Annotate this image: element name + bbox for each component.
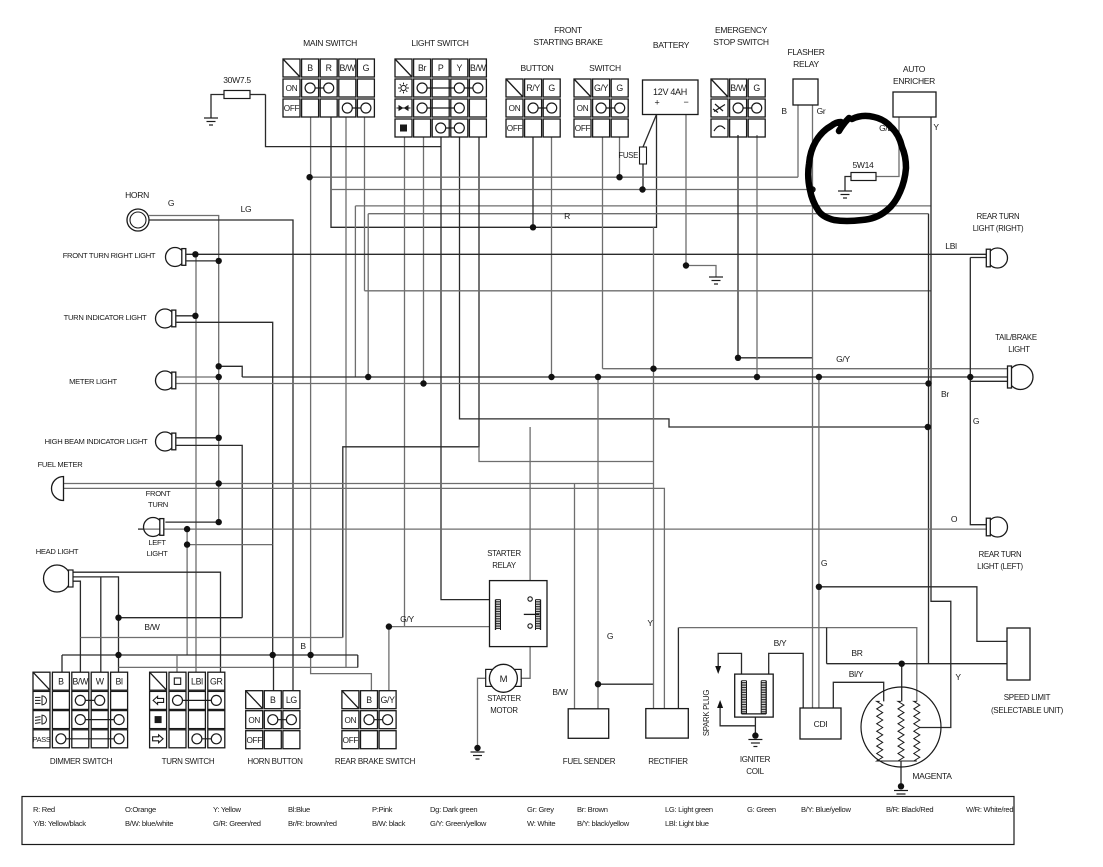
svg-text:BR: BR	[851, 648, 862, 658]
svg-text:G: G	[363, 63, 370, 73]
svg-text:OFF: OFF	[284, 104, 300, 113]
svg-text:PASS: PASS	[33, 735, 51, 744]
svg-text:(SELECTABLE UNIT): (SELECTABLE UNIT)	[991, 706, 1064, 715]
svg-text:Br: Brown: Br: Brown	[577, 805, 608, 814]
svg-text:LBl: Light blue: LBl: Light blue	[665, 819, 709, 828]
svg-text:Dg: Dark green: Dg: Dark green	[430, 805, 477, 814]
svg-text:B: B	[307, 63, 313, 73]
svg-text:STARTING BRAKE: STARTING BRAKE	[533, 37, 603, 47]
svg-text:Bl: Bl	[115, 676, 123, 686]
svg-text:OFF: OFF	[507, 124, 523, 133]
svg-text:G/Y: G/Y	[594, 83, 609, 93]
svg-text:RELAY: RELAY	[492, 561, 517, 570]
svg-text:REAR BRAKE SWITCH: REAR BRAKE SWITCH	[335, 757, 416, 766]
svg-text:LIGHT (RIGHT): LIGHT (RIGHT)	[973, 224, 1024, 233]
svg-text:R/Y: R/Y	[526, 83, 540, 93]
svg-text:COIL: COIL	[746, 767, 764, 776]
svg-text:Y: Y	[647, 618, 653, 628]
svg-text:LIGHT: LIGHT	[1008, 345, 1030, 354]
svg-text:HEAD LIGHT: HEAD LIGHT	[36, 547, 79, 556]
svg-text:TAIL/BRAKE: TAIL/BRAKE	[995, 333, 1037, 342]
svg-text:ON: ON	[577, 104, 589, 113]
svg-text:LG: LG	[241, 204, 252, 214]
svg-text:Br/R: brown/red: Br/R: brown/red	[288, 819, 337, 828]
svg-text:METER LIGHT: METER LIGHT	[69, 377, 117, 386]
svg-text:BUTTON: BUTTON	[521, 63, 554, 73]
svg-text:R: R	[564, 211, 570, 221]
svg-text:HIGH BEAM INDICATOR LIGHT: HIGH BEAM INDICATOR LIGHT	[45, 437, 148, 446]
svg-text:R: R	[326, 63, 332, 73]
svg-text:Br: Br	[941, 389, 949, 399]
svg-text:Bl/Y: Bl/Y	[849, 669, 864, 679]
svg-text:B/Y: black/yellow: B/Y: black/yellow	[577, 819, 630, 828]
svg-text:Y/B: Yellow/black: Y/B: Yellow/black	[33, 819, 86, 828]
svg-text:O: O	[951, 514, 958, 524]
svg-text:Gr: Grey: Gr: Grey	[527, 805, 554, 814]
svg-text:SPARK PLUG: SPARK PLUG	[702, 690, 711, 736]
svg-text:REAR TURN: REAR TURN	[979, 550, 1022, 559]
svg-text:ON: ON	[286, 84, 298, 93]
svg-text:BATTERY: BATTERY	[653, 40, 690, 50]
svg-text:MAIN SWITCH: MAIN SWITCH	[303, 38, 357, 48]
svg-text:HORN BUTTON: HORN BUTTON	[247, 757, 303, 766]
svg-text:G: G	[973, 416, 979, 426]
svg-text:G: G	[821, 558, 827, 568]
svg-text:CDI: CDI	[814, 719, 828, 729]
svg-text:MAGENTA: MAGENTA	[912, 771, 952, 781]
svg-text:OFF: OFF	[343, 736, 359, 745]
svg-text:OFF: OFF	[575, 124, 591, 133]
svg-text:Y: Y	[933, 122, 939, 132]
svg-text:SPEED LIMIT: SPEED LIMIT	[1004, 693, 1051, 702]
svg-text:P:Pink: P:Pink	[372, 805, 393, 814]
svg-text:B: B	[270, 695, 276, 705]
svg-text:Y: Yellow: Y: Yellow	[213, 805, 242, 814]
svg-text:RELAY: RELAY	[793, 59, 819, 69]
svg-text:M: M	[500, 674, 508, 685]
svg-text:LG: Light green: LG: Light green	[665, 805, 713, 814]
svg-text:FRONT TURN RIGHT LIGHT: FRONT TURN RIGHT LIGHT	[63, 251, 156, 260]
svg-text:12V 4AH: 12V 4AH	[653, 87, 687, 97]
svg-text:STOP SWITCH: STOP SWITCH	[713, 37, 769, 47]
svg-text:G: G	[607, 631, 613, 641]
svg-text:FUEL SENDER: FUEL SENDER	[563, 757, 616, 766]
svg-text:LIGHT: LIGHT	[147, 549, 169, 558]
svg-text:G: Green: G: Green	[747, 805, 776, 814]
svg-text:Y: Y	[955, 672, 961, 682]
svg-text:R: Red: R: Red	[33, 805, 55, 814]
svg-text:EMERGENCY: EMERGENCY	[715, 25, 768, 35]
svg-text:B: B	[781, 106, 787, 116]
svg-text:STARTER: STARTER	[487, 549, 521, 558]
svg-text:G/Y: Green/yellow: G/Y: Green/yellow	[430, 819, 487, 828]
svg-text:IGNITER: IGNITER	[740, 755, 771, 764]
svg-text:LBl: LBl	[191, 676, 203, 686]
svg-text:B: B	[58, 676, 64, 686]
svg-text:SWITCH: SWITCH	[589, 63, 621, 73]
svg-text:B/Y: B/Y	[774, 638, 787, 648]
svg-text:ON: ON	[345, 716, 357, 725]
svg-text:G/Y: G/Y	[836, 354, 850, 364]
svg-text:5W14: 5W14	[852, 160, 874, 170]
svg-text:Gr: Gr	[817, 106, 826, 116]
svg-text:Bl:Blue: Bl:Blue	[288, 805, 310, 814]
svg-text:G/R: Green/red: G/R: Green/red	[213, 819, 261, 828]
svg-text:G/Y: G/Y	[400, 614, 414, 624]
svg-text:FLASHER: FLASHER	[787, 47, 824, 57]
svg-text:REAR TURN: REAR TURN	[977, 212, 1020, 221]
svg-text:FUSE: FUSE	[618, 151, 638, 160]
svg-text:LEFT: LEFT	[148, 538, 166, 547]
svg-text:AUTO: AUTO	[903, 64, 926, 74]
svg-text:G: G	[548, 83, 555, 93]
svg-text:MOTOR: MOTOR	[490, 706, 518, 715]
svg-text:B/W: B/W	[552, 687, 567, 697]
svg-text:+: +	[655, 98, 660, 108]
svg-text:B: B	[300, 641, 306, 651]
svg-text:Y: Y	[457, 63, 463, 73]
svg-text:FRONT: FRONT	[554, 25, 582, 35]
svg-text:OFF: OFF	[246, 736, 262, 745]
svg-text:B: B	[366, 695, 372, 705]
svg-text:G: G	[616, 83, 623, 93]
svg-text:B/W: B/W	[470, 63, 487, 73]
svg-text:W: W	[96, 676, 105, 686]
svg-text:FRONT: FRONT	[146, 489, 171, 498]
svg-text:TURN INDICATOR LIGHT: TURN INDICATOR LIGHT	[64, 313, 147, 322]
svg-text:B/W: B/W	[72, 676, 89, 686]
svg-text:HORN: HORN	[125, 190, 149, 200]
svg-text:FUEL METER: FUEL METER	[38, 460, 84, 469]
svg-text:LBl: LBl	[945, 241, 957, 251]
svg-text:B/R: Black/Red: B/R: Black/Red	[886, 805, 933, 814]
svg-text:B/W: blue/white: B/W: blue/white	[125, 819, 173, 828]
svg-text:RECTIFIER: RECTIFIER	[648, 757, 688, 766]
svg-text:G/Y: G/Y	[380, 695, 395, 705]
svg-text:W/R: White/red: W/R: White/red	[966, 805, 1013, 814]
svg-text:DIMMER SWITCH: DIMMER SWITCH	[50, 757, 113, 766]
svg-text:B/W: B/W	[730, 83, 747, 93]
svg-text:−: −	[684, 97, 689, 107]
svg-text:ENRICHER: ENRICHER	[893, 76, 935, 86]
svg-text:LG: LG	[286, 695, 298, 705]
svg-text:O:Orange: O:Orange	[125, 805, 156, 814]
svg-text:B/Y: Blue/yellow: B/Y: Blue/yellow	[801, 805, 851, 814]
svg-text:TURN SWITCH: TURN SWITCH	[162, 757, 215, 766]
svg-text:Br: Br	[418, 63, 427, 73]
svg-text:B/W: B/W	[144, 622, 159, 632]
svg-text:STARTER: STARTER	[487, 694, 521, 703]
svg-text:G: G	[168, 198, 174, 208]
svg-text:ON: ON	[509, 104, 521, 113]
svg-text:P: P	[438, 63, 444, 73]
svg-text:B/W: black: B/W: black	[372, 819, 406, 828]
svg-text:ON: ON	[248, 716, 260, 725]
svg-text:GR: GR	[210, 676, 223, 686]
svg-text:LIGHT (LEFT): LIGHT (LEFT)	[977, 562, 1023, 571]
svg-text:30W7.5: 30W7.5	[223, 75, 251, 85]
svg-text:B/W: B/W	[339, 63, 356, 73]
svg-text:W: White: W: White	[527, 819, 555, 828]
svg-text:TURN: TURN	[148, 500, 168, 509]
svg-text:LIGHT SWITCH: LIGHT SWITCH	[411, 38, 468, 48]
svg-text:G: G	[753, 83, 760, 93]
